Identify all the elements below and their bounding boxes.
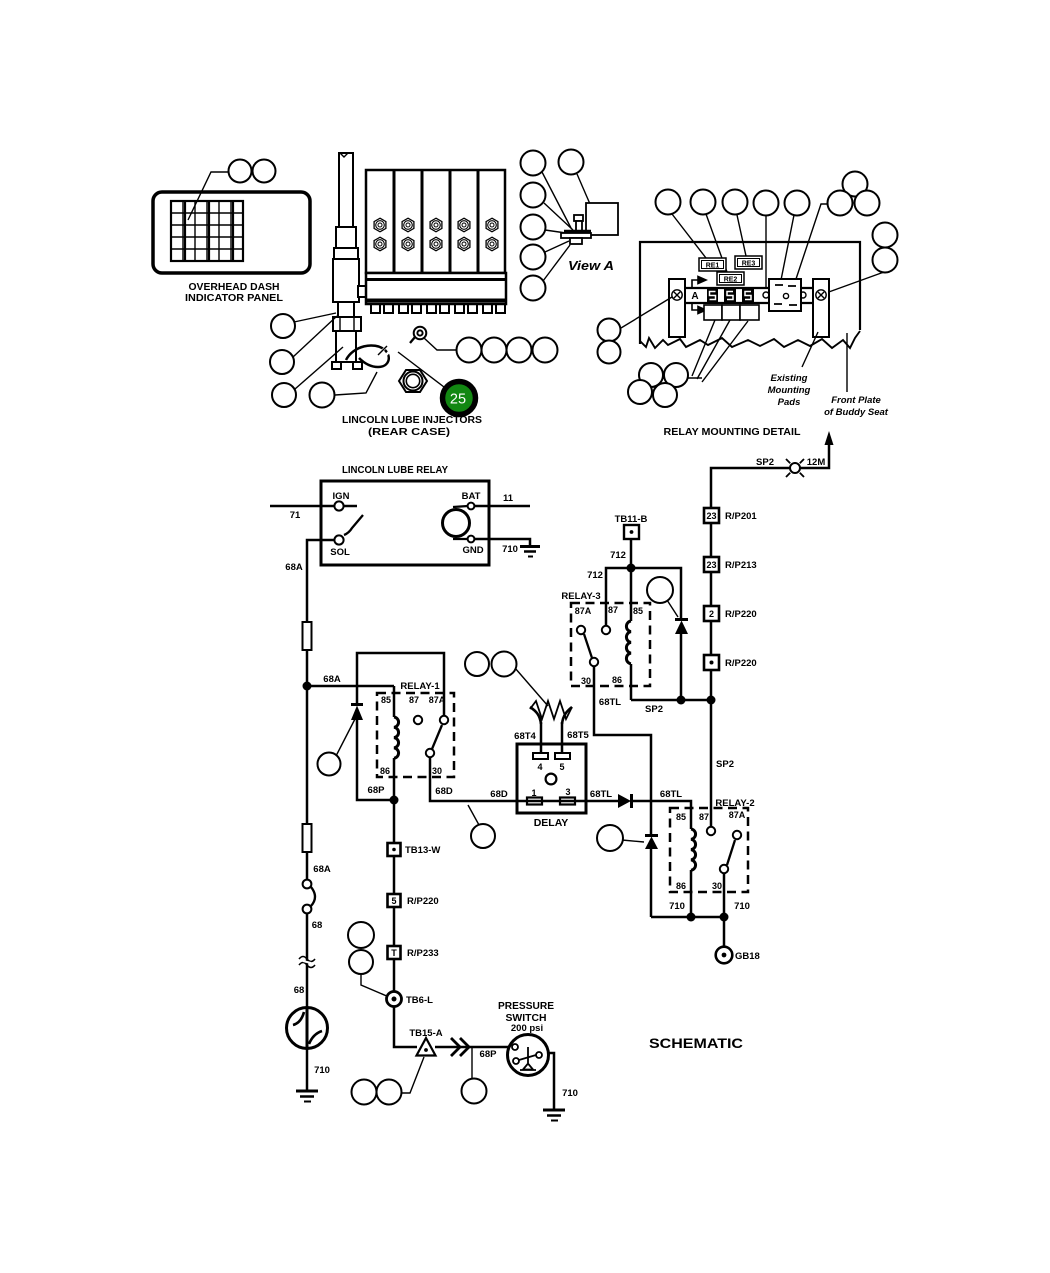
relay-3 dashed box — [571, 603, 650, 686]
callout circle (injector 2) — [270, 350, 294, 374]
svg-text:87A: 87A — [429, 695, 446, 705]
wire to junction — [306, 650, 309, 824]
callout column circle 3 — [521, 215, 546, 240]
lube pump motor symbol — [287, 1008, 328, 1050]
callout right 2 — [873, 248, 898, 273]
callout circle (delay resistor b) — [492, 652, 517, 677]
svg-text:(REAR CASE): (REAR CASE) — [368, 426, 450, 438]
svg-text:DELAY: DELAY — [534, 817, 569, 829]
svg-text:SP2: SP2 — [716, 759, 734, 770]
svg-text:GB18: GB18 — [735, 951, 760, 962]
leaders to View A bolt — [542, 172, 571, 228]
delay internal wire — [517, 800, 586, 803]
ground (pump) — [296, 1091, 318, 1102]
ground boss GB18 — [716, 947, 733, 964]
svg-text:30: 30 — [432, 766, 442, 776]
RE3 label box — [735, 256, 762, 269]
svg-text:5: 5 — [559, 762, 564, 772]
svg-text:68T5: 68T5 — [567, 730, 589, 741]
svg-text:SP2: SP2 — [756, 457, 774, 468]
svg-text:RELAY-3: RELAY-3 — [561, 591, 600, 602]
leader rail — [765, 216, 767, 287]
wire 68TL delay to relay-2 — [586, 801, 691, 829]
svg-text:712: 712 — [587, 570, 603, 581]
callout circle (injector 1) — [271, 314, 295, 338]
callout circle (tb15 a) — [352, 1080, 377, 1105]
relay coil circle — [443, 510, 470, 537]
wire 71 to IGN — [270, 505, 334, 508]
svg-text:87: 87 — [608, 605, 618, 615]
leader from callout 4 — [335, 372, 377, 395]
leader existing mounting pads — [802, 332, 818, 367]
delay pin 4 — [533, 753, 548, 759]
View A bracket assembly — [561, 203, 618, 244]
node 710 b — [720, 913, 729, 922]
leader diode callout — [336, 719, 355, 756]
callout circle (view A top right) — [559, 150, 584, 175]
svg-text:5: 5 — [391, 896, 396, 906]
svg-text:RE2: RE2 — [724, 277, 738, 284]
wire SP2 to relay-2 87 — [710, 700, 713, 826]
IGN stub — [344, 505, 357, 508]
callout circle (tb6 b) — [349, 950, 373, 974]
svg-text:23: 23 — [706, 511, 716, 521]
svg-text:200 psi: 200 psi — [511, 1023, 543, 1034]
leader RE1 — [672, 214, 706, 258]
leader TB6-L callout — [361, 975, 389, 997]
lincoln lube injector block — [366, 170, 505, 273]
callout cluster right — [855, 191, 880, 216]
svg-text:LINCOLN LUBE RELAY: LINCOLN LUBE RELAY — [342, 464, 448, 476]
svg-text:68A: 68A — [323, 674, 341, 685]
wire SP2 horizontal — [631, 699, 711, 702]
svg-text:R/P220: R/P220 — [407, 896, 439, 907]
svg-text:712: 712 — [610, 550, 626, 561]
leader right circles to screw — [826, 272, 884, 293]
leader RE2 — [706, 214, 727, 272]
svg-text:11: 11 — [503, 493, 514, 504]
callout pair left 2 — [598, 341, 621, 364]
callout cluster top — [843, 172, 868, 197]
svg-text:710: 710 — [734, 901, 750, 912]
relay-1 coil — [393, 686, 396, 800]
terminal TB13-W — [393, 800, 396, 843]
connector R/P213 — [704, 557, 719, 572]
callout row circle 1 — [457, 338, 482, 363]
svg-text:SOL: SOL — [330, 547, 350, 558]
arrow to relay mounting detail — [825, 431, 834, 445]
callout circle (RE1) — [656, 190, 681, 215]
svg-text:68: 68 — [294, 985, 305, 996]
terminal IGN — [334, 501, 343, 510]
svg-text:RE3: RE3 — [742, 261, 756, 268]
inline connector chevrons — [451, 1038, 469, 1056]
leader diode callout — [667, 600, 678, 617]
callout circle (relay box) — [785, 191, 810, 216]
svg-text:SCHEMATIC: SCHEMATIC — [649, 1035, 743, 1051]
callout column circle 5 — [521, 276, 546, 301]
svg-text:87A: 87A — [729, 810, 746, 820]
relay-1 87A terminal — [440, 716, 448, 724]
relay-2 dashed box — [670, 808, 748, 892]
relay-3 coil — [630, 568, 633, 700]
leaders pads to cluster — [688, 320, 748, 382]
svg-text:SP2: SP2 — [645, 704, 663, 715]
svg-text:68TL: 68TL — [599, 697, 621, 708]
svg-text:87A: 87A — [575, 606, 592, 616]
wire — [710, 572, 713, 606]
callout circle (injector 3) — [272, 383, 296, 407]
callout cluster a — [639, 363, 663, 387]
relay modules on rail — [707, 287, 754, 304]
callout circle (tb6 a) — [348, 922, 374, 948]
lincoln lube relay box — [321, 481, 489, 565]
svg-text:87: 87 — [409, 695, 419, 705]
wire relay-2 30 down — [723, 873, 726, 917]
delay pins 4,5 wires — [541, 722, 562, 753]
svg-text:87: 87 — [699, 812, 709, 822]
wire to diode (relay-3) — [631, 568, 681, 619]
svg-text:68A: 68A — [313, 864, 331, 875]
switch 68 — [303, 880, 312, 889]
terminal TB6-L — [393, 959, 396, 992]
left screw — [672, 290, 682, 300]
callout cluster b — [664, 363, 688, 387]
relay-1 87 terminal — [414, 716, 422, 724]
node 68P junction — [390, 796, 399, 805]
mounting rail — [669, 288, 829, 303]
callout circle (relay-2 diode) — [597, 825, 623, 851]
callout column circle 1 — [521, 151, 546, 176]
fuse 68A upper — [303, 622, 312, 650]
relay-2 87 terminal — [707, 827, 715, 835]
callout column circle 2 — [521, 183, 546, 208]
wire 712 to relay-3 87 — [606, 568, 631, 626]
svg-text:GND: GND — [462, 545, 483, 556]
svg-text:3: 3 — [565, 787, 570, 797]
svg-text:86: 86 — [676, 881, 686, 891]
leader from circle cluster to relay box — [796, 204, 831, 279]
wire to switch — [306, 852, 309, 880]
delay thermal element — [530, 701, 572, 724]
svg-text:710: 710 — [314, 1065, 330, 1076]
svg-text:PRESSURE: PRESSURE — [498, 1000, 554, 1012]
diode CR (relay-3 suppression) — [675, 618, 688, 621]
leader front plate — [846, 333, 848, 392]
svg-text:710: 710 — [669, 901, 685, 912]
svg-text:68TL: 68TL — [590, 789, 612, 800]
callout pair left 1 — [598, 319, 621, 342]
relay-3 87A terminal — [577, 626, 585, 634]
delay pin 5 — [555, 753, 570, 759]
svg-text:4: 4 — [537, 762, 542, 772]
hex nut — [399, 370, 427, 392]
connector R/P201 — [704, 508, 719, 523]
callout circle (68D wire) — [471, 824, 495, 848]
relay-1 dashed box — [377, 693, 454, 777]
relay-2 coil — [691, 829, 696, 870]
relay switch arm — [344, 515, 363, 535]
wire down with break — [306, 913, 309, 1007]
connector R/P220 — [704, 655, 719, 670]
svg-text:RELAY-1: RELAY-1 — [400, 681, 440, 692]
callout circle (RE2) — [691, 190, 716, 215]
relay-3 87 terminal — [602, 626, 610, 634]
callout cluster c — [628, 380, 652, 404]
svg-text:T: T — [391, 948, 397, 958]
svg-text:RELAY MOUNTING DETAIL: RELAY MOUNTING DETAIL — [664, 426, 802, 438]
lube injector feed tube — [332, 153, 367, 369]
callout cluster left — [828, 191, 853, 216]
wire 710 from pressure switch — [548, 1053, 554, 1110]
ring terminal — [414, 327, 427, 340]
relay-1 movable contact — [426, 749, 434, 757]
green callout 25 — [443, 382, 476, 415]
svg-text:TB11-B: TB11-B — [615, 514, 648, 525]
callout circle (68P wire) — [462, 1079, 487, 1104]
connector R/P220 pin 2 — [704, 606, 719, 621]
svg-text:INDICATOR PANEL: INDICATOR PANEL — [185, 292, 284, 304]
injector manifold — [366, 273, 506, 313]
svg-text:68P: 68P — [368, 785, 386, 796]
callout circle (relay-3 diode) — [647, 577, 673, 603]
callout circle (panel, right) — [253, 160, 276, 183]
right bracket — [813, 279, 829, 337]
leader relay box — [781, 215, 794, 280]
svg-text:68A: 68A — [285, 562, 303, 573]
svg-text:of Buddy Seat: of Buddy Seat — [824, 407, 889, 418]
injector fitting bolts — [374, 218, 498, 251]
node SP2 diode junction — [677, 696, 686, 705]
wire — [710, 621, 713, 655]
svg-text:A: A — [691, 291, 698, 302]
delay module box — [517, 744, 586, 813]
svg-text:30: 30 — [581, 676, 591, 686]
callout circle (panel, left) — [229, 160, 252, 183]
view arrow A — [692, 277, 706, 314]
svg-text:86: 86 — [380, 766, 390, 776]
connector R/P233 pin T — [393, 907, 396, 946]
callout row circle 2 — [482, 338, 507, 363]
wire to chevron — [435, 1046, 509, 1049]
wire 710 to ground — [474, 539, 530, 546]
svg-text:View A: View A — [568, 259, 614, 273]
svg-text:IGN: IGN — [333, 491, 350, 502]
svg-text:23: 23 — [706, 560, 716, 570]
relay-3 movable contact — [590, 658, 598, 666]
terminal GND — [468, 536, 475, 543]
svg-text:71: 71 — [290, 510, 301, 521]
terminal BAT — [468, 503, 475, 510]
leader 68P callout — [471, 1048, 473, 1079]
wire SOL / 68A — [307, 540, 334, 622]
svg-text:Mounting: Mounting — [768, 385, 811, 396]
node SP2 main junction — [707, 696, 716, 705]
callout circle (tb15 b) — [377, 1080, 402, 1105]
wire 11 — [474, 505, 530, 508]
wire to TB15-A — [394, 1006, 417, 1047]
wire SP2 top run — [711, 444, 829, 508]
ground (pressure switch) — [543, 1110, 565, 1121]
relay-1 outer wire loop — [357, 653, 444, 800]
svg-text:2: 2 — [709, 609, 714, 619]
small rail holes — [763, 292, 769, 298]
svg-text:68D: 68D — [490, 789, 508, 800]
leader left screw to circle pair — [621, 297, 672, 328]
callout row circle 4 — [533, 338, 558, 363]
left bracket — [669, 279, 685, 337]
leader lines to injector — [294, 313, 336, 322]
svg-text:68TL: 68TL — [660, 789, 682, 800]
delay center hole — [546, 774, 557, 785]
leader RE3 — [737, 215, 746, 256]
callout circle (rail) — [754, 191, 779, 216]
callout circle (RE3) — [723, 190, 748, 215]
svg-text:Front Plate: Front Plate — [831, 395, 881, 406]
wire — [710, 670, 713, 700]
diode 68TL series — [618, 794, 631, 808]
svg-text:R/P233: R/P233 — [407, 948, 439, 959]
right screw — [816, 290, 826, 300]
svg-text:30: 30 — [712, 881, 722, 891]
mounting pad squares — [704, 305, 759, 320]
svg-text:710: 710 — [502, 544, 518, 555]
lube hose loop — [346, 345, 389, 367]
callout right 1 — [873, 223, 898, 248]
svg-text:RE1: RE1 — [706, 263, 720, 270]
flasher relay box — [769, 279, 801, 311]
svg-text:85: 85 — [676, 812, 686, 822]
leader diode callout — [622, 840, 644, 842]
wire to GB18 — [723, 917, 726, 947]
wire 68A to relay-1 — [307, 685, 394, 688]
wire 710 — [306, 1049, 309, 1091]
svg-text:BAT: BAT — [462, 491, 481, 502]
leader ring terminal to callout row — [424, 338, 457, 350]
svg-text:85: 85 — [381, 695, 391, 705]
callout circle (delay resistor a) — [465, 652, 489, 676]
svg-text:Pads: Pads — [778, 397, 801, 408]
svg-text:25: 25 — [450, 392, 466, 408]
svg-text:68P: 68P — [480, 1049, 498, 1060]
leader to timer resistor — [515, 668, 548, 706]
connector R/P220 pin 5 — [393, 856, 396, 894]
wire — [710, 523, 713, 557]
overhead dash indicator panel — [153, 192, 310, 304]
diode CR (relay-1 suppression) — [351, 703, 363, 706]
wire 712 — [630, 539, 633, 568]
svg-text:R/P220: R/P220 — [725, 609, 757, 620]
wire 68TL from relay-3 30 — [594, 666, 651, 835]
leader TB15-A callout — [401, 1057, 424, 1093]
diode CR (relay-2 suppression) — [645, 834, 658, 837]
node 712 junction — [627, 564, 636, 573]
svg-text:R/P220: R/P220 — [725, 658, 757, 669]
node 710 a — [687, 913, 696, 922]
node 68A junction — [303, 682, 312, 691]
svg-text:TB13-W: TB13-W — [405, 845, 440, 856]
leader to panel grid — [188, 172, 228, 220]
svg-text:Existing: Existing — [771, 373, 808, 384]
callout row circle 3 — [507, 338, 532, 363]
wire 30 to delay (68D) — [430, 757, 517, 801]
RE1 label box — [699, 258, 726, 271]
svg-text:85: 85 — [633, 606, 643, 616]
leader to green callout — [398, 352, 444, 387]
callout cluster d — [653, 383, 677, 407]
svg-text:86: 86 — [612, 675, 622, 685]
svg-text:12M: 12M — [807, 457, 826, 468]
callout circle (relay-1 diode) — [318, 753, 341, 776]
callout circle (injector 4) — [310, 383, 335, 408]
svg-text:R/P213: R/P213 — [725, 560, 757, 571]
svg-text:R/P201: R/P201 — [725, 511, 757, 522]
ground (relay) — [520, 547, 540, 557]
wire 710 bottom — [651, 916, 724, 919]
leader 68D callout — [468, 805, 479, 825]
svg-text:68T4: 68T4 — [514, 731, 536, 742]
callout column circle 4 — [521, 245, 546, 270]
svg-text:68: 68 — [312, 920, 323, 931]
fuse 68A lower — [303, 824, 312, 852]
svg-text:710: 710 — [562, 1088, 578, 1099]
svg-text:TB6-L: TB6-L — [406, 995, 433, 1006]
svg-text:68D: 68D — [435, 786, 453, 797]
svg-text:LINCOLN LUBE INJECTORS: LINCOLN LUBE INJECTORS — [342, 414, 482, 426]
terminal SOL — [334, 535, 343, 544]
relay mounting plate outline — [640, 242, 860, 348]
relay-2 movable contact — [720, 865, 728, 873]
RE2 label box — [717, 272, 744, 285]
splice symbol — [786, 459, 804, 477]
relay-2 87A terminal — [733, 831, 741, 839]
